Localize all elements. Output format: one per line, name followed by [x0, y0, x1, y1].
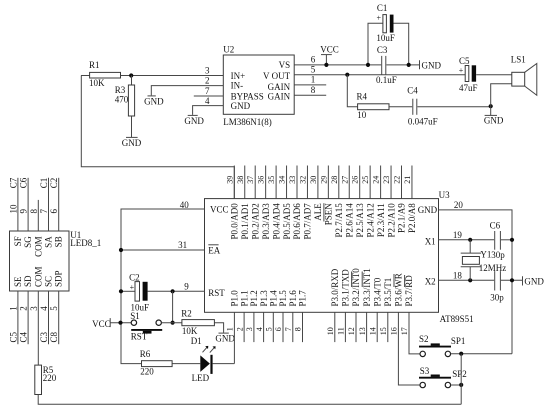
pin P1.0 label — [230, 290, 240, 307]
svg-text:U3: U3 — [439, 190, 450, 200]
resistor R6 — [140, 349, 172, 377]
pin number 40 — [180, 200, 190, 210]
pin 1 number — [311, 74, 316, 84]
svg-text:10: 10 — [357, 110, 367, 120]
wire pin 29 top stub — [327, 166, 329, 199]
svg-text:20: 20 — [454, 200, 464, 210]
wire P1.6 pin 7 stub — [292, 312, 294, 342]
capacitor 30p at X2 — [490, 271, 504, 303]
svg-text:10uF: 10uF — [376, 33, 395, 43]
ground at IN- — [144, 96, 164, 107]
pin number 6 — [49, 209, 59, 214]
wire R1 to U2 IN+ — [121, 75, 224, 77]
svg-text:LED8_1: LED8_1 — [70, 238, 101, 248]
pin number 8 — [29, 209, 39, 214]
wire X2 pin 18 line — [439, 279, 523, 281]
svg-text:25: 25 — [361, 176, 370, 184]
svg-text:GND: GND — [422, 60, 442, 70]
VCC symbol left — [92, 318, 111, 329]
svg-text:ALE: ALE — [313, 203, 323, 221]
node X1 crystal junction — [468, 238, 472, 242]
diode D1 LED — [191, 336, 216, 383]
net label C3 — [39, 331, 49, 342]
mcu U3 AT89S51 box — [205, 190, 474, 324]
pin number 3 — [29, 306, 39, 311]
wire pin 23 top stub — [390, 166, 392, 199]
svg-text:P3.0/RXD: P3.0/RXD — [330, 268, 340, 306]
svg-text:C6: C6 — [19, 177, 29, 188]
pin number 38 — [236, 176, 245, 184]
EA overline — [208, 244, 218, 246]
svg-text:P0.3/AD3: P0.3/AD3 — [261, 203, 271, 240]
pin number 16 — [390, 327, 399, 335]
svg-text:X2: X2 — [425, 277, 436, 287]
pin number 25 — [361, 176, 370, 184]
node R1/R3/IN+ junction — [129, 73, 133, 77]
pin P2.3/A11 label — [376, 203, 386, 237]
svg-text:C3: C3 — [39, 331, 49, 342]
svg-text:5: 5 — [311, 64, 316, 74]
wire P3.4 pin 14 stub — [376, 312, 378, 342]
pin 4 number — [205, 96, 210, 106]
wire P1.0 pin 1 to LED — [233, 312, 235, 363]
wire U2 pin 7 BYPASS stub — [194, 95, 224, 97]
svg-text:7: 7 — [39, 209, 49, 214]
pin 7 number — [205, 86, 210, 96]
node S1/R2 junction — [171, 321, 175, 325]
wire pin 35 top stub — [275, 166, 277, 199]
wire U2 pin 5 VOUT line — [294, 74, 512, 76]
pin PSEN label with overline — [324, 203, 334, 226]
svg-text:SD: SD — [23, 275, 33, 287]
svg-text:1: 1 — [226, 327, 235, 331]
svg-text:0.047uF: 0.047uF — [408, 117, 438, 127]
svg-text:4: 4 — [255, 327, 264, 331]
wire C1 loop — [368, 23, 409, 65]
pin SC label — [44, 276, 54, 287]
wire pin 39 top stub — [233, 166, 235, 199]
wire VOUT down to R4 — [347, 75, 357, 107]
svg-text:8: 8 — [29, 209, 39, 214]
pin 8 number — [311, 85, 316, 95]
svg-text:+: + — [459, 66, 464, 75]
resistor R3 — [115, 76, 135, 138]
svg-text:P1.2: P1.2 — [249, 290, 259, 306]
svg-text:6: 6 — [311, 55, 316, 65]
svg-text:37: 37 — [246, 176, 255, 184]
wire P3.5 pin 15 stub — [387, 312, 389, 342]
svg-text:SB: SB — [54, 236, 64, 247]
svg-text:GND: GND — [524, 277, 544, 287]
pin P3.7/RD label with overline — [404, 275, 414, 307]
svg-text:C1: C1 — [39, 178, 49, 189]
pin number 28 — [330, 176, 339, 184]
pin SDP label — [54, 270, 64, 287]
svg-text:GND: GND — [418, 205, 438, 215]
svg-text:P1.3: P1.3 — [259, 290, 269, 307]
svg-text:30p: 30p — [490, 293, 504, 303]
wire pin 22 top stub — [401, 166, 403, 199]
node VOUT branch — [345, 73, 349, 77]
wire U1 pin 8 COM top stub — [37, 200, 39, 231]
svg-text:21: 21 — [403, 176, 412, 184]
pin P1.3 label — [259, 290, 269, 307]
pin number 18 — [453, 271, 463, 281]
pin P0.2/AD2 label — [250, 203, 260, 239]
svg-text:6: 6 — [274, 327, 283, 331]
svg-text:P3.4/T0: P3.4/T0 — [372, 277, 382, 306]
pin P2.4/A12 label — [365, 203, 375, 237]
svg-text:220: 220 — [140, 367, 154, 377]
wire P3.0 pin 10 stub — [334, 312, 336, 342]
svg-text:PSEN: PSEN — [324, 203, 334, 226]
wire P3.6 pin 16 down to S3 — [398, 312, 420, 385]
pin number 5 — [265, 327, 274, 331]
pin number 30 — [309, 176, 318, 184]
wire pin 32 top stub — [306, 166, 308, 199]
svg-text:VCC: VCC — [320, 44, 339, 54]
svg-text:22: 22 — [393, 176, 402, 184]
wire U1 pin 1 bottom stub — [17, 291, 19, 344]
svg-text:S2: S2 — [419, 334, 429, 344]
crystal Y1 12MHz — [461, 240, 507, 280]
pin number 10 — [8, 204, 18, 214]
switch S1 RST pushbutton — [130, 311, 162, 342]
svg-text:23: 23 — [382, 176, 391, 184]
wire C4 to speaker/ground node — [417, 106, 490, 108]
svg-text:33: 33 — [288, 176, 297, 184]
wire speaker lower terminal — [491, 84, 512, 107]
wire S1 to R2 — [161, 322, 182, 324]
wire U1 pin 5 bottom stub — [58, 291, 60, 344]
pin number 9 — [184, 281, 189, 291]
svg-text:4: 4 — [39, 306, 49, 311]
svg-text:14: 14 — [368, 327, 377, 335]
net label C7 — [8, 177, 18, 188]
svg-text:LED: LED — [192, 373, 210, 383]
pin P2.2/A10 label — [386, 203, 396, 238]
wire P3.1 pin 11 stub — [344, 312, 346, 342]
svg-text:P3.1/TXD: P3.1/TXD — [341, 269, 351, 307]
svg-text:C6: C6 — [490, 220, 501, 230]
pin number 36 — [257, 176, 266, 184]
svg-text:6: 6 — [49, 209, 59, 214]
wire pin 37 top stub — [254, 166, 256, 199]
speaker LS1 — [511, 54, 537, 95]
svg-text:30: 30 — [309, 176, 318, 184]
pin number 17 — [400, 327, 409, 335]
svg-text:V OUT: V OUT — [263, 71, 291, 81]
svg-text:AT89S51: AT89S51 — [440, 314, 474, 324]
svg-text:P0.0/AD0: P0.0/AD0 — [230, 203, 240, 240]
svg-text:Y1: Y1 — [480, 250, 491, 260]
svg-text:P3.7/RD: P3.7/RD — [404, 275, 414, 307]
svg-text:P3.3/INT1: P3.3/INT1 — [362, 268, 372, 306]
ground right of X2 — [523, 276, 544, 286]
pin number 14 — [368, 327, 377, 335]
capacitor C5 47uF polarized — [459, 56, 478, 93]
pin SA label — [44, 236, 54, 248]
svg-text:5: 5 — [49, 306, 59, 311]
pin 5 number — [311, 64, 316, 74]
svg-text:10: 10 — [8, 204, 18, 214]
svg-text:27: 27 — [340, 176, 349, 184]
wire P1.3 pin 4 stub — [263, 312, 265, 342]
pin number 9 — [19, 209, 29, 214]
pin number 7 — [39, 209, 49, 214]
pin number 20 — [454, 200, 464, 210]
pin number 22 — [393, 176, 402, 184]
svg-text:C4: C4 — [407, 85, 418, 95]
pin P2.0/A8 label — [407, 203, 417, 233]
svg-text:VS: VS — [279, 60, 291, 70]
svg-text:2: 2 — [205, 75, 210, 85]
wire U2 pin 4 GND to ground — [193, 106, 224, 115]
display U1 LED8_1 box — [10, 230, 102, 291]
svg-text:SG: SG — [23, 236, 33, 248]
svg-text:SF: SF — [13, 236, 23, 246]
svg-text:P0.6/AD6: P0.6/AD6 — [292, 203, 302, 240]
svg-text:R4: R4 — [357, 91, 368, 101]
svg-text:C5: C5 — [8, 331, 18, 342]
pin number 39 — [225, 176, 234, 184]
svg-text:GND: GND — [144, 97, 164, 107]
svg-text:SE: SE — [13, 276, 23, 287]
wire P1.2 pin 3 stub — [253, 312, 255, 342]
net label C4 — [19, 331, 29, 342]
svg-text:P0.1/AD1: P0.1/AD1 — [240, 203, 250, 239]
svg-text:SC: SC — [44, 276, 54, 287]
resistor R4 — [357, 91, 390, 120]
svg-text:BYPASS: BYPASS — [231, 92, 264, 102]
pin P3.1/TXD label — [341, 269, 351, 307]
wire LED cathode to P1.0 — [213, 363, 235, 365]
svg-text:C7: C7 — [8, 177, 18, 188]
resistor R1 — [81, 60, 121, 88]
pin P1.2 label — [249, 290, 259, 306]
pin P0.0/AD0 label — [230, 203, 240, 240]
node X2 crystal junction — [468, 278, 472, 282]
svg-text:+: + — [130, 283, 135, 292]
svg-text:4: 4 — [205, 96, 210, 106]
pin P1.1 label — [239, 290, 249, 306]
svg-text:IN-: IN- — [231, 81, 244, 91]
pin number 2 — [19, 306, 29, 311]
wire pin 36 top stub — [265, 166, 267, 199]
svg-text:P2.1/A9: P2.1/A9 — [397, 203, 407, 233]
node X2 ground rail junction — [510, 278, 514, 282]
svg-text:38: 38 — [236, 176, 245, 184]
ground at R2 — [215, 333, 235, 344]
wire P1.7 pin 8 stub — [302, 312, 304, 342]
pin 3 number — [205, 66, 210, 76]
svg-text:R2: R2 — [181, 309, 192, 319]
wire EA pin 31 — [121, 249, 205, 251]
svg-text:P2.4/A12: P2.4/A12 — [365, 203, 375, 237]
pin P3.0/RXD label — [330, 268, 340, 306]
svg-text:GND: GND — [184, 116, 204, 126]
pin number 6 — [274, 327, 283, 331]
net label C6 — [19, 177, 29, 188]
wire U2 pin 2 IN- to ground — [151, 86, 223, 96]
svg-text:12MHz: 12MHz — [479, 263, 507, 273]
svg-text:39: 39 — [225, 176, 234, 184]
wire U1 pin 3 COM down to R5 — [37, 291, 39, 365]
pin P3.4/T0 label — [372, 277, 382, 306]
svg-text:8: 8 — [311, 85, 316, 95]
pin P0.1/AD1 label — [240, 203, 250, 239]
wire pin 24 top stub — [380, 166, 382, 199]
svg-text:S3: S3 — [420, 366, 430, 376]
resistor R5 — [35, 365, 57, 395]
node C1 left — [366, 63, 370, 67]
wire R4 to C4 — [389, 106, 412, 108]
wire P1.5 pin 6 stub — [282, 312, 284, 342]
svg-text:C8: C8 — [49, 331, 59, 342]
pin number 11 — [337, 327, 346, 335]
wire P3.7 pin 17 down to S2 — [409, 312, 420, 354]
pin P3.6/WR label with overline — [394, 273, 404, 306]
svg-text:32: 32 — [298, 176, 307, 184]
svg-text:P1.4: P1.4 — [269, 290, 279, 307]
wire U1 pin 10 top stub — [17, 178, 19, 231]
svg-text:10K: 10K — [182, 326, 198, 336]
svg-text:LS1: LS1 — [511, 54, 526, 64]
node C2 rail junction — [119, 289, 123, 293]
svg-text:12: 12 — [347, 327, 356, 335]
wire U1 pin 7 top stub — [48, 178, 50, 231]
pin number 7 — [284, 327, 293, 331]
ground right of pin 6 line — [420, 60, 442, 70]
svg-text:COM: COM — [33, 266, 43, 287]
pin 6 number — [311, 55, 316, 65]
svg-text:35: 35 — [267, 176, 276, 184]
pin P0.4/AD4 label — [271, 203, 281, 240]
switch S2 SP1 pushbutton — [419, 334, 465, 357]
wire P3.3 pin 13 stub — [366, 312, 368, 342]
VCC symbol at VS — [320, 44, 339, 65]
wire pin 34 top stub — [286, 166, 288, 199]
pin COM bottom label — [33, 266, 43, 287]
svg-text:18: 18 — [453, 271, 463, 281]
svg-text:C4: C4 — [19, 331, 29, 342]
pin ALE label — [313, 203, 323, 221]
wire S2 to ground rail — [451, 353, 512, 355]
pin number 33 — [288, 176, 297, 184]
pin SG label — [23, 236, 33, 248]
svg-text:LM386N1(8): LM386N1(8) — [223, 117, 271, 127]
node RST junction — [171, 289, 175, 293]
node EA junction — [119, 248, 123, 252]
svg-text:RST: RST — [131, 332, 148, 342]
svg-text:7: 7 — [284, 327, 293, 331]
wire RST pin 9 line — [121, 290, 205, 292]
wire from R1 left down and over to P0.0/AD0 pin 39 — [81, 76, 234, 199]
capacitor C4 0.047uF — [407, 85, 437, 126]
svg-text:IN+: IN+ — [231, 71, 246, 81]
svg-text:30p: 30p — [491, 250, 505, 260]
svg-text:P2.7/A15: P2.7/A15 — [334, 203, 344, 238]
capacitor C3 0.1uF — [376, 45, 397, 85]
wire SP1/SP2 down to bottom rail — [460, 354, 462, 405]
svg-text:10: 10 — [326, 327, 335, 335]
wire pin 27 top stub — [348, 166, 350, 199]
wire pin 28 top stub — [338, 166, 340, 199]
svg-text:EA: EA — [208, 246, 220, 256]
node VCC rail junction — [118, 321, 122, 325]
svg-text:P1.0: P1.0 — [230, 290, 240, 307]
net label C2 — [49, 178, 59, 189]
net label C1 — [39, 178, 49, 189]
wire GND pin 20 and right ground rail — [439, 210, 513, 354]
pin P0.3/AD3 label — [261, 203, 271, 240]
wire U1 pin 9 top stub — [27, 178, 29, 231]
pin number 21 — [403, 176, 412, 184]
wire U1 pin 6 top stub — [58, 178, 60, 231]
svg-text:29: 29 — [319, 176, 328, 184]
svg-text:8: 8 — [294, 327, 303, 331]
svg-text:9: 9 — [19, 209, 29, 214]
ground below R3 — [122, 137, 142, 148]
pin number 26 — [351, 176, 360, 184]
svg-text:9: 9 — [184, 281, 189, 291]
wire U2 pin 8 stub — [294, 94, 326, 96]
pin number 4 — [255, 327, 264, 331]
svg-text:10K: 10K — [89, 78, 105, 88]
capacitor C2 10uF polarized — [129, 273, 149, 313]
pin number 1 — [8, 306, 18, 311]
wire R6 to LED anode — [172, 363, 200, 365]
wire VCC to S1 — [110, 322, 131, 324]
net label C5 — [8, 331, 18, 342]
svg-text:3: 3 — [205, 66, 210, 76]
svg-text:GND: GND — [231, 101, 251, 111]
svg-text:X1: X1 — [425, 237, 436, 247]
svg-text:40: 40 — [180, 200, 190, 210]
svg-text:C3: C3 — [377, 45, 388, 55]
svg-text:0.1uF: 0.1uF — [376, 75, 397, 85]
pin number 34 — [278, 176, 287, 184]
pin P2.7/A15 label — [334, 203, 344, 238]
pin SB label — [54, 236, 64, 247]
svg-text:VCC: VCC — [92, 319, 111, 329]
capacitor C1 10uF polarized — [376, 3, 395, 43]
svg-text:31: 31 — [178, 240, 187, 250]
svg-text:3: 3 — [245, 327, 254, 331]
svg-text:+: + — [377, 14, 382, 23]
pin number 35 — [267, 176, 276, 184]
wire VCC rail pin40 to R6 — [121, 209, 205, 364]
pin P1.7 label — [298, 290, 308, 307]
node SP1 junction — [459, 352, 463, 356]
node speaker ground junction — [489, 104, 493, 108]
wire P3.2 pin 12 stub — [355, 312, 357, 342]
pin P2.6/A14 label — [344, 203, 354, 238]
wire P1.1 pin 2 stub — [243, 312, 245, 342]
svg-text:D1: D1 — [191, 336, 202, 346]
svg-text:19: 19 — [453, 230, 463, 240]
svg-text:RST: RST — [208, 288, 225, 298]
svg-text:470: 470 — [115, 95, 129, 105]
pin number 24 — [372, 176, 381, 184]
pin P3.2/INT0 label with overline — [351, 268, 361, 307]
op-amp U2 LM386 box — [223, 45, 294, 127]
svg-text:C1: C1 — [377, 3, 388, 13]
svg-text:P0.2/AD2: P0.2/AD2 — [250, 203, 260, 239]
pin number 29 — [319, 176, 328, 184]
pin P2.1/A9 label — [397, 203, 407, 233]
svg-text:GAIN: GAIN — [268, 82, 291, 92]
